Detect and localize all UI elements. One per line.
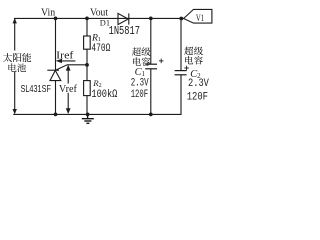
node junction: divider node (Iref node)	[85, 63, 89, 67]
node junction: C1 bottom at ground rail	[149, 113, 153, 117]
svg-text:100kΩ: 100kΩ	[91, 89, 117, 101]
label 超级 (C2)	[184, 47, 203, 56]
svg-text:R1: R1	[91, 32, 101, 43]
svg-text:V1: V1	[196, 13, 204, 24]
svg-text:Iref: Iref	[56, 50, 74, 61]
wire bottom ground rail	[13, 75, 181, 115]
node junction: C1 branch to top rail	[149, 17, 153, 21]
label 超级 (C1)	[132, 47, 150, 56]
svg-text:SL431SF: SL431SF	[21, 84, 51, 95]
svg-text:120F: 120F	[187, 92, 208, 104]
label 电容 (C1)	[133, 57, 150, 66]
node junction: C2 branch / V1 tap on top rail	[179, 17, 183, 21]
resistor R1	[84, 18, 91, 64]
ground symbol	[82, 114, 94, 123]
node junction: TL431 cathode to top rail	[54, 17, 58, 21]
svg-text:2.3V: 2.3V	[188, 78, 209, 90]
svg-text:R2: R2	[92, 78, 101, 89]
output flag terminal V1	[184, 9, 212, 23]
diode D1 1N5817	[118, 13, 129, 24]
node junction: R2 bottom at ground rail	[86, 113, 90, 117]
annotation Iref current arrow	[56, 59, 76, 63]
solar cell branch with current arrows	[13, 18, 17, 114]
node junction: R1 branch to top rail	[85, 17, 89, 21]
svg-text:470Ω: 470Ω	[91, 43, 110, 55]
wire reference pin of U1 to divider node	[56, 65, 87, 70]
svg-text:Vin: Vin	[41, 6, 56, 18]
wire top rail Vin/Vout	[14, 17, 184, 19]
label 太阳能	[3, 53, 31, 62]
supercapacitor C1	[145, 18, 157, 114]
svg-text:Vref: Vref	[59, 84, 78, 95]
svg-text:120F: 120F	[131, 89, 148, 101]
svg-text:2.3V: 2.3V	[131, 78, 149, 90]
supercapacitor C2	[175, 19, 187, 75]
node junction: U1 anode at ground rail	[54, 113, 58, 117]
svg-text:Vout: Vout	[90, 6, 108, 18]
label 电池	[9, 63, 26, 72]
resistor R2	[84, 65, 91, 115]
svg-text:C1: C1	[135, 67, 146, 78]
annotation Vref voltage arrow (double headed)	[59, 65, 78, 114]
svg-text:1N5817: 1N5817	[109, 24, 140, 38]
label 电容 (C2)	[185, 56, 203, 65]
shunt regulator U1 SL431SF	[47, 18, 61, 114]
polarity + of C2	[184, 66, 189, 71]
polarity + of C1	[159, 59, 164, 64]
